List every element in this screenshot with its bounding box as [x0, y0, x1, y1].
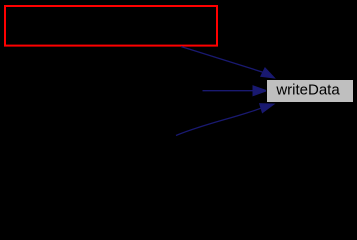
edge: bottom caller to writeData [176, 104, 274, 136]
edge: middle caller to writeData [203, 86, 268, 96]
svg-text:writeData: writeData [275, 82, 340, 99]
node: truncated caller (red outline) [5, 6, 217, 46]
edge: top caller to writeData [181, 47, 275, 79]
node writeData (current function) [267, 80, 354, 103]
